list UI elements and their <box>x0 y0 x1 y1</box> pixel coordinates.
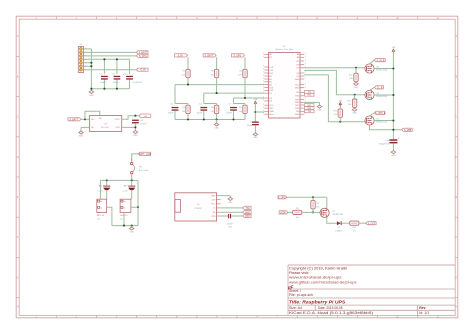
svg-text:S_CHG: S_CHG <box>139 56 147 58</box>
svg-text:File: pi-ups.sch: File: pi-ups.sch <box>289 293 313 297</box>
svg-text:S_BATT: S_BATT <box>70 118 79 121</box>
svg-text:1: 1 <box>263 104 264 106</box>
svg-text:1000µF/6.3: 1000µF/6.3 <box>378 143 389 145</box>
svg-text:1: 1 <box>263 69 264 71</box>
svg-text:1: 1 <box>263 89 264 91</box>
svg-text:2: 2 <box>305 53 306 55</box>
svg-text:S_IN: S_IN <box>178 55 183 57</box>
svg-text:S_UPS_E: S_UPS_E <box>375 113 386 115</box>
svg-text:2: 2 <box>305 63 306 65</box>
svg-text:GND: GND <box>211 196 216 198</box>
svg-text:RX0: RX0 <box>245 212 250 214</box>
svg-text:CTS: CTS <box>212 199 217 201</box>
svg-text:IRLML2244: IRLML2244 <box>376 96 388 98</box>
svg-text:GND: GND <box>295 114 300 116</box>
svg-text:www.github.com/microfarad-de/p: www.github.com/microfarad-de/pi-ups <box>289 280 357 284</box>
svg-text:CLP: CLP <box>269 67 274 69</box>
svg-text:Raw: Raw <box>269 114 274 116</box>
svg-text:2: 2 <box>305 83 306 85</box>
svg-text:GND: GND <box>89 95 94 97</box>
svg-text:Rx: Rx <box>213 212 215 214</box>
svg-text:GND: GND <box>228 202 233 204</box>
svg-text:100nF: 100nF <box>227 223 234 225</box>
svg-text:H: H <box>17 306 19 309</box>
svg-text:H: H <box>456 306 458 309</box>
svg-text:2: 2 <box>305 113 306 115</box>
svg-text:1: 1 <box>263 110 264 112</box>
svg-text:S_VBB: S_VBB <box>404 130 412 132</box>
svg-text:2: 2 <box>305 60 306 62</box>
svg-text:2: 2 <box>305 78 306 80</box>
svg-text:GND: GND <box>269 111 274 113</box>
svg-text:GND: GND <box>253 137 258 139</box>
svg-text:G: G <box>455 276 457 279</box>
svg-text:S_UPS: S_UPS <box>234 55 242 57</box>
svg-text:Title: Raspberry PI UPS: Title: Raspberry PI UPS <box>289 299 347 304</box>
svg-text:IN-: IN- <box>91 127 94 129</box>
svg-text:GND: GND <box>295 87 300 89</box>
svg-text:1: 1 <box>263 113 264 115</box>
svg-text:S_UPS: S_UPS <box>278 197 286 199</box>
svg-text:GND: GND <box>133 135 138 137</box>
svg-text:GND: GND <box>214 127 219 129</box>
svg-text:1: 1 <box>263 97 264 99</box>
svg-text:GND: GND <box>317 110 322 112</box>
svg-text:Arduino_Pro_Mini: Arduino_Pro_Mini <box>276 48 294 51</box>
svg-text:100nF: 100nF <box>168 112 175 114</box>
svg-text:FT0232: FT0232 <box>194 208 202 210</box>
svg-text:Batt_Low#: Batt_Low# <box>139 169 150 172</box>
svg-text:IRLML2244: IRLML2244 <box>376 122 388 124</box>
svg-text:LED0: LED0 <box>280 212 286 214</box>
svg-text:2: 2 <box>305 56 306 58</box>
svg-text:TX0: TX0 <box>245 208 250 210</box>
svg-text:GND: GND <box>129 231 134 233</box>
svg-text:KiCad E.D.A. kicad (5.0.1-3-g: KiCad E.D.A. kicad (5.0.1-3-g963ef8bb5) <box>289 311 373 315</box>
svg-text:VCC: VCC <box>295 84 300 86</box>
svg-text:2: 2 <box>305 72 306 74</box>
svg-text:RTS: RTS <box>212 216 217 218</box>
svg-text:S_OUT: S_OUT <box>368 223 376 225</box>
svg-text:OUT+: OUT+ <box>115 119 121 121</box>
svg-text:Rev:: Rev: <box>419 306 426 310</box>
svg-text:VCC: VCC <box>269 105 274 107</box>
svg-text:GND: GND <box>295 79 300 81</box>
svg-text:1: 1 <box>263 56 264 58</box>
svg-text:1: 1 <box>263 107 264 109</box>
svg-text:GND: GND <box>352 113 357 115</box>
svg-text:2: 2 <box>305 86 306 88</box>
svg-text:1: 1 <box>263 81 264 83</box>
svg-text:1: 1 <box>263 53 264 55</box>
svg-text:220nF: 220nF <box>140 123 147 125</box>
svg-text:Id: 1/1: Id: 1/1 <box>419 311 429 315</box>
svg-text:1N5819: 1N5819 <box>335 230 343 232</box>
svg-text:4.7µF/6V3: 4.7µF/6V3 <box>132 82 142 84</box>
svg-text:GND: GND <box>354 87 359 89</box>
svg-text:IRLML2244: IRLML2244 <box>376 70 388 72</box>
svg-text:VCC: VCC <box>211 204 216 206</box>
svg-text:S_IN_E: S_IN_E <box>376 60 384 62</box>
svg-text:D: D <box>17 156 19 159</box>
svg-text:1: 1 <box>263 100 264 102</box>
svg-text:1: 1 <box>263 92 264 94</box>
svg-text:220nF: 220nF <box>247 125 254 127</box>
svg-text:G: G <box>17 276 19 279</box>
svg-text:C: C <box>17 116 19 119</box>
svg-text:B+: B+ <box>100 201 102 203</box>
svg-text:2: 2 <box>305 98 306 100</box>
svg-text:GND: GND <box>79 135 84 137</box>
svg-text:BATT_LOW: BATT_LOW <box>139 153 152 156</box>
svg-text:1: 1 <box>263 86 264 88</box>
svg-text:GND: GND <box>391 155 396 157</box>
svg-text:100nF: 100nF <box>196 112 203 114</box>
svg-text:B+: B+ <box>124 201 126 203</box>
svg-text:100nF: 100nF <box>113 82 120 84</box>
svg-text:Please visit:: Please visit: <box>289 271 309 275</box>
svg-text:TX0: TX0 <box>308 111 311 113</box>
svg-text:100nF: 100nF <box>226 112 233 114</box>
svg-text:OUT-: OUT- <box>115 127 120 129</box>
svg-text:Size: A4: Size: A4 <box>289 306 302 310</box>
svg-text:S_BATT: S_BATT <box>205 54 214 57</box>
svg-text:CL_B: CL_B <box>377 87 383 89</box>
svg-text:IRLML2244: IRLML2244 <box>333 214 345 216</box>
svg-text:D: D <box>456 156 458 159</box>
svg-text:DC<->DC: DC<->DC <box>101 126 110 129</box>
svg-text:Tx: Tx <box>213 208 215 210</box>
svg-text:MCL-13: MCL-13 <box>97 215 105 217</box>
svg-text:Li-Ion: Li-Ion <box>98 190 103 192</box>
svg-text:S_IN: S_IN <box>140 70 145 72</box>
svg-text:C: C <box>456 116 458 119</box>
svg-text:Li-Ion: Li-Ion <box>123 190 128 192</box>
svg-text:1: 1 <box>263 72 264 74</box>
svg-text:1: 1 <box>263 78 264 80</box>
svg-text:RST: RST <box>245 216 250 218</box>
svg-text:100nF: 100nF <box>100 82 107 84</box>
svg-text:www.microfarad.de/pi-ups: www.microfarad.de/pi-ups <box>289 275 342 279</box>
svg-text:1: 1 <box>263 75 264 77</box>
svg-text:1: 1 <box>263 83 264 85</box>
svg-text:RX1: RX1 <box>307 95 311 97</box>
svg-text:1: 1 <box>263 66 264 68</box>
svg-text:Date: 2019-06-08: Date: 2019-06-08 <box>318 306 343 310</box>
